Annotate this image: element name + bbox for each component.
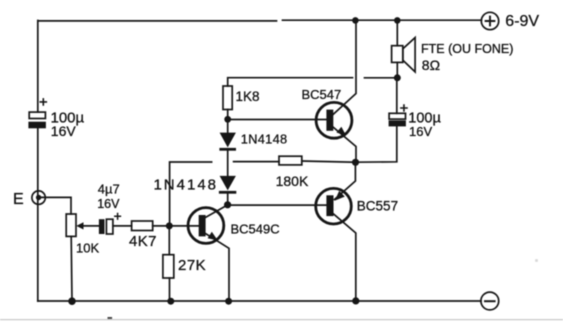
node A: R1 / D1 / BC547 base — [224, 116, 231, 123]
svg-text:BC557: BC557 — [357, 198, 398, 213]
svg-text:BC547: BC547 — [302, 87, 342, 102]
svg-text:8Ω: 8Ω — [422, 57, 440, 73]
wire bootstrap left segment to R1 top — [228, 78, 353, 86]
ink speck on page rule — [108, 317, 113, 319]
transistor Q3 BC549C circle — [188, 208, 224, 244]
wire pot top to input jack — [41, 197, 71, 214]
wire R3 top — [168, 226, 170, 255]
svg-text:16V: 16V — [97, 197, 120, 211]
capacitor C2 positive plate — [106, 219, 113, 234]
svg-text:16V: 16V — [409, 124, 432, 139]
node output: emitters / C3 / R2 — [352, 159, 359, 166]
wire feedback right segment — [234, 161, 279, 163]
transistor Q2 BC557 circle — [316, 188, 352, 224]
svg-text:16V: 16V — [51, 123, 77, 139]
capacitor C1 negative plate — [28, 122, 46, 129]
capacitor C1 100u positive plate — [29, 112, 45, 118]
input jack E center pin — [36, 195, 41, 200]
C1 plus sign — [40, 99, 46, 105]
wire speaker top — [396, 21, 398, 46]
wire D1 to D2 — [227, 151, 229, 176]
svg-text:10K: 10K — [76, 241, 99, 256]
resistor R2 180K — [279, 156, 302, 165]
C3 plus sign — [401, 105, 407, 111]
wire left rail — [37, 21, 39, 302]
wire bottom ground rail — [38, 300, 481, 302]
resistor R4 4K7 — [132, 221, 153, 231]
transistor Q1 BC547 circle — [316, 102, 352, 138]
svg-text:1N4148: 1N4148 — [241, 131, 288, 146]
node top rail / speaker — [394, 17, 401, 24]
wire pot wiper — [83, 225, 99, 227]
wire R1 bottom to node A — [227, 110, 229, 120]
wire R3 bottom — [169, 278, 171, 301]
faint page rule — [0, 319, 563, 321]
battery positive terminal — [481, 12, 498, 29]
capacitor C2 4u7 negative plate — [99, 219, 105, 234]
pot wiper arrow — [76, 222, 83, 229]
wire D2 to node B — [227, 194, 229, 205]
wire pot bottom — [70, 236, 73, 301]
node top rail / BC547 collector — [352, 17, 359, 24]
diode D2 1N4148 — [220, 176, 236, 191]
D1 cathode bar — [219, 148, 236, 151]
wire feedback left segment with corner down — [170, 162, 212, 226]
D2 cathode bar — [219, 191, 236, 194]
wire top supply rail — [38, 19, 481, 22]
svg-text:1N4148: 1N4148 — [153, 176, 218, 193]
svg-text:6-9V: 6-9V — [505, 13, 539, 30]
Q2 emitter — [335, 162, 356, 199]
wire BC557 base — [228, 204, 327, 206]
Q3 collector — [205, 205, 227, 218]
wire R2 to output node — [302, 161, 356, 162]
node pot ground — [68, 297, 76, 305]
speaker LS1 magnet — [392, 46, 403, 63]
node ground BC557 collector — [352, 297, 359, 304]
Q2 collector — [333, 214, 356, 301]
Q1 emitter — [333, 127, 356, 162]
resistor R1 1K8 — [223, 86, 232, 110]
wire C2 to R4 — [113, 225, 132, 227]
node speaker / C3 / bootstrap — [394, 74, 401, 81]
speaker LS1 cone — [403, 38, 415, 72]
svg-text:4K7: 4K7 — [129, 233, 157, 250]
svg-text:1K8: 1K8 — [236, 89, 260, 104]
svg-text:4µ7: 4µ7 — [98, 181, 120, 196]
svg-text:BC549C: BC549C — [231, 222, 280, 237]
Q1 base bar — [326, 110, 333, 131]
wire bootstrap right segment — [365, 77, 398, 79]
svg-text:E: E — [13, 191, 24, 208]
C2 plus sign — [115, 214, 121, 220]
resistor R3 27K — [163, 255, 174, 278]
wire D1 anode — [227, 119, 229, 132]
wire BC547 base — [228, 119, 327, 121]
node B: D2 / BC549C collector / BC557 base — [224, 201, 231, 208]
node ground R3 — [167, 298, 174, 305]
Q2 base bar — [326, 195, 333, 216]
svg-text:FTE (OU FONE): FTE (OU FONE) — [421, 42, 513, 56]
Q3 emitter — [205, 234, 229, 302]
node ground BC549C emitter — [225, 298, 232, 305]
Q1 emitter arrow — [336, 127, 346, 136]
capacitor C3 100u negative plate — [389, 120, 406, 126]
battery negative terminal — [481, 292, 499, 310]
Q3 base bar — [199, 215, 206, 236]
Q2 emitter arrow — [335, 191, 345, 201]
wire R4 to BC549C base — [153, 225, 199, 227]
svg-text:180K: 180K — [276, 173, 309, 189]
input jack E outer ring — [32, 191, 45, 204]
potentiometer R5 10K — [66, 214, 76, 236]
node base: R3 / R4 / feedback — [166, 222, 173, 229]
wire C3 top — [396, 78, 398, 114]
Q3 emitter arrow — [208, 232, 218, 241]
svg-text:27K: 27K — [178, 257, 206, 274]
Q1 collector — [333, 21, 356, 115]
paper speck — [535, 259, 538, 262]
wire C3 bottom to output node — [356, 126, 397, 162]
capacitor C3 100u positive plate — [389, 113, 405, 119]
diode D1 1N4148 — [220, 133, 236, 148]
wire speaker bottom — [396, 62, 398, 77]
